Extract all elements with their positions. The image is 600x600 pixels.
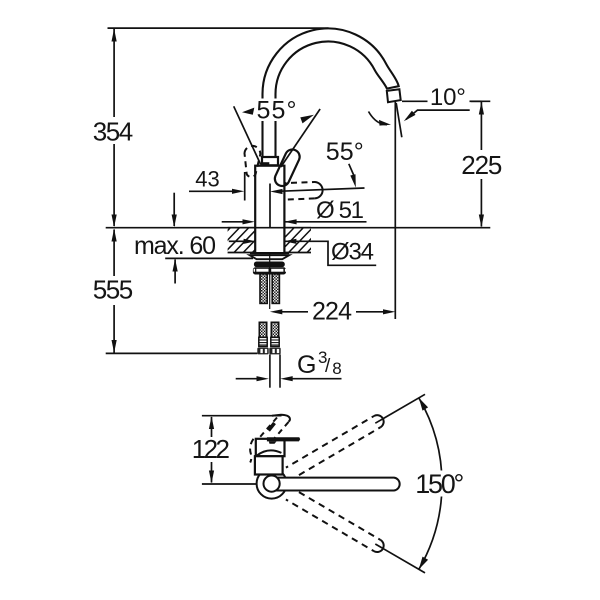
deck hatching right [260,227,341,254]
plan handle upper block [256,439,285,456]
lever axis horizontal line with left arrow [281,188,365,191]
swivel arc 150 degrees [419,398,442,570]
svg-text:55°: 55° [326,138,364,166]
braided hoses upper segment [260,274,267,304]
svg-text:10°: 10° [430,84,466,111]
angle reference line A (left) [234,106,261,164]
lever dashed (horizontal right) [284,182,314,183]
svg-text:122: 122 [192,434,230,464]
dimension 354 [113,29,115,226]
collar ring [262,157,278,165]
dimension O34 [229,240,244,242]
faucet body (cartridge housing and shank) [255,166,284,253]
G 3/8 connection tube [269,354,271,387]
plan swivel axis line lower [375,544,425,573]
plan raised lever bold dash [269,423,275,431]
dimension 225 [471,100,490,102]
spout axis vertical extension [394,102,396,320]
dimension 224 [275,311,308,313]
aerator / spout tip block [387,89,401,102]
plan handle left dashed silhouette [250,439,253,463]
plan lever neck wedge [269,441,277,443]
bottom reference line (hose ends) [106,352,258,354]
dimension 43 [189,190,233,192]
hose crimp fittings [259,337,279,346]
centerline below deck [269,253,271,309]
plan raised lever dashed outline [273,422,289,441]
spout tube (pipe + arc + aerator tip), white filled [262,28,398,156]
label 55 degrees left [253,99,299,122]
svg-text:max. 60: max. 60 [134,232,216,260]
top reference line [108,27,329,29]
plan raised lever tip (solid curve) [272,415,290,422]
o-ring band [254,262,285,268]
angle reference line B (right, solid lever axis) [281,109,320,167]
lever solid (up-right) [275,150,300,186]
body centerline tick [269,184,271,228]
svg-text:225: 225 [461,150,502,180]
deck line across body [228,227,311,229]
plan dashed spout (upper) [286,413,386,479]
braided hoses lower segment [259,322,266,337]
svg-text:354: 354 [93,116,134,146]
dimension 122 [211,417,213,483]
svg-text:G: G [297,351,316,379]
svg-text:150°: 150° [415,469,464,499]
lever dashed (up-left) [245,146,261,177]
plan spout bar (solid) [273,478,400,491]
plan dashed spout (lower) [286,488,386,554]
plan cartridge dome arc [257,450,281,455]
svg-text:Ø34: Ø34 [331,239,374,266]
dimension 555 [113,230,115,353]
10 degree annotation [402,100,428,102]
10 degree second leader line [406,110,470,119]
10 degree tilted spout axis line [396,103,402,137]
plan center extension line [202,483,260,485]
deck hatching left [196,227,286,254]
svg-text:8: 8 [332,359,341,378]
svg-text:/: / [325,356,331,377]
washer below deck [250,253,289,255]
plan handle lower block [255,456,283,474]
dimension G 3/8 [236,378,257,380]
plan top extension line [202,415,282,417]
svg-text:55°: 55° [257,97,297,125]
indicator tab [263,162,269,166]
deck top line [106,227,491,229]
plan body inner circle [264,476,280,492]
plan swivel axis line upper [375,394,425,423]
mounting nut [253,267,286,274]
svg-text:Ø 51: Ø 51 [316,197,364,224]
43 extension line [244,172,246,201]
svg-text:43: 43 [195,167,220,192]
hose end nuts [257,348,280,355]
plan body outer circle [257,469,287,499]
svg-text:224: 224 [312,298,352,326]
10 degree curved arrow [369,112,388,125]
plan lever T-bar [267,437,300,441]
deck bottom edges [228,252,256,254]
svg-text:555: 555 [93,275,134,305]
dimension O51 [222,221,243,223]
dimension max. 60 [173,193,175,226]
